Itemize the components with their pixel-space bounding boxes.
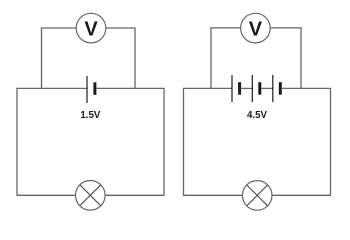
battery B2 cell 1: long positive plate: [231, 75, 233, 102]
svg-text:1.5V: 1.5V: [80, 110, 100, 121]
battery B1 (1.5 V cell): long positive plate: [86, 76, 88, 103]
battery B2 cell 3: short thick negative plate: [279, 82, 282, 95]
wire: right circuit top-right segment: [282, 87, 330, 89]
battery B2 cell 2: long positive plate: [251, 75, 253, 102]
battery B1 (1.5 V cell): short thick negative plate: [93, 82, 96, 95]
wire: right circuit segment between cell 2 and cell 3: [262, 87, 273, 89]
wire: left circuit top-left segment: [17, 87, 87, 89]
battery B2 cell 1: short thick negative plate: [238, 82, 241, 95]
wire: right circuit segment between cell 1 and cell 2: [241, 87, 252, 89]
wire: left circuit bottom-left segment: [17, 194, 77, 196]
svg-text:V: V: [249, 19, 263, 41]
voltmeter V2: [241, 13, 271, 43]
svg-text:4.5V: 4.5V: [247, 110, 267, 121]
wire: right circuit right side: [330, 88, 332, 196]
lamp L1: [76, 181, 106, 211]
wire: right circuit bottom-right segment: [271, 194, 331, 196]
wire: left circuit bottom-right segment: [105, 194, 165, 196]
battery B2 cell 2: short thick negative plate: [258, 82, 261, 95]
wire: left circuit top-right segment: [97, 87, 164, 89]
lamp L2: [242, 181, 272, 211]
voltmeter V1: [76, 13, 106, 43]
battery B2 cell 3: long positive plate: [272, 75, 274, 102]
wire: voltmeter V2 branch right (horizontal + vertical): [270, 28, 301, 89]
wire: voltmeter V2 branch left (vertical + horizontal): [211, 28, 241, 89]
wire: right circuit top-left segment: [184, 87, 233, 89]
wire: left circuit left side: [16, 88, 18, 196]
svg-text:V: V: [84, 19, 98, 41]
wire: right circuit bottom-left segment: [184, 194, 244, 196]
wire: right circuit left side: [183, 88, 185, 196]
wire: left circuit right side: [163, 88, 165, 196]
wire: voltmeter V1 branch left (vertical + horizontal): [42, 28, 77, 88]
wire: voltmeter V1 branch right (horizontal + vertical): [106, 28, 135, 88]
